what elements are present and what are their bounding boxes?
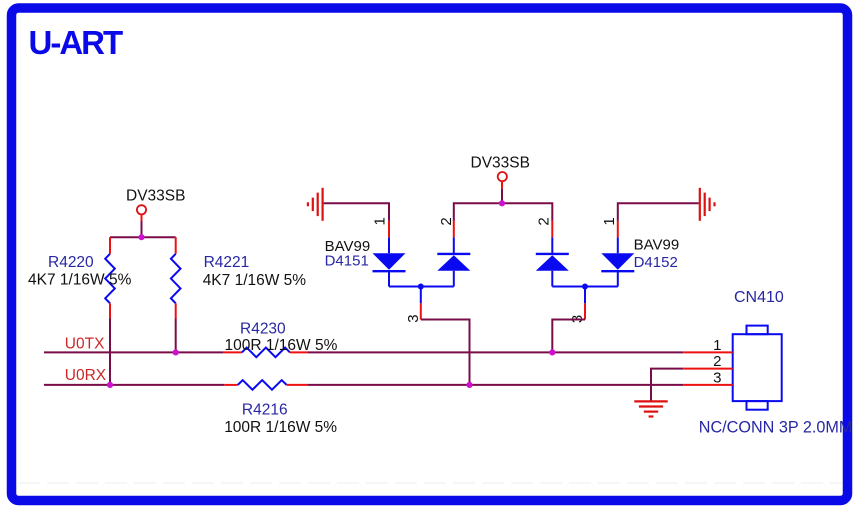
connector CN410 <box>683 289 852 436</box>
svg-text:4K7 1/16W 5%: 4K7 1/16W 5% <box>203 272 307 289</box>
svg-text:BAV99: BAV99 <box>634 236 680 253</box>
wire middle rail pin2-pin2 <box>454 203 553 221</box>
power pin stub (red) DV33SB middle <box>501 181 503 189</box>
diode element A (cathode up) <box>536 253 569 255</box>
svg-text:1: 1 <box>372 217 389 225</box>
svg-text:100R 1/16W 5%: 100R 1/16W 5% <box>225 337 338 354</box>
wire from DV33SB left to rail <box>141 221 143 237</box>
common anode wire <box>389 286 454 288</box>
svg-text:1: 1 <box>601 217 618 225</box>
junction dot R4221/U0TX <box>173 349 179 355</box>
svg-text:D4151: D4151 <box>325 253 369 270</box>
junction dot D4152/U0TX <box>549 349 555 355</box>
pin 1 lead <box>617 221 619 237</box>
svg-text:R4221: R4221 <box>204 254 250 271</box>
wire U0RX middle segment <box>308 384 683 386</box>
svg-text:100R 1/16W 5%: 100R 1/16W 5% <box>224 419 337 436</box>
resistor R4221 <box>171 237 306 318</box>
junction dot R4220/U0RX <box>107 382 113 388</box>
svg-text:CN410: CN410 <box>734 289 784 306</box>
ground symbol (top left, earth) <box>308 188 323 221</box>
diode D4151 (BAV99) <box>325 217 471 323</box>
pin 3 lead <box>584 287 586 304</box>
common anode wire <box>552 286 618 288</box>
svg-text:2: 2 <box>713 353 721 370</box>
svg-text:D4152: D4152 <box>634 254 678 271</box>
pin 1 lead <box>388 221 390 237</box>
wire R4221 bottom to U0TX <box>175 319 177 353</box>
diode D4152 (BAV99) <box>536 217 680 323</box>
svg-text:U-ART: U-ART <box>29 24 123 61</box>
wire D4152 pin1 to right ground <box>618 203 699 221</box>
svg-text:4K7 1/16W 5%: 4K7 1/16W 5% <box>28 271 132 288</box>
wire D4151 pin3 to U0RX <box>421 320 470 385</box>
diode element B (cathode down) <box>601 253 634 270</box>
resistor R4230 <box>224 321 338 358</box>
svg-text:NC/CONN 3P 2.0MM: NC/CONN 3P 2.0MM <box>699 418 853 436</box>
svg-text:3: 3 <box>405 314 422 322</box>
wire top rail R4220/R4221 <box>110 236 176 238</box>
ground symbol (bottom, signal gnd) <box>634 401 667 416</box>
junction dot D4151/U0RX <box>466 382 472 388</box>
svg-text:DV33SB: DV33SB <box>126 188 185 205</box>
svg-text:U0TX: U0TX <box>65 335 105 352</box>
pin 3 lead <box>420 287 422 304</box>
svg-text:2: 2 <box>438 217 455 225</box>
pin 2 lead <box>453 221 455 237</box>
diode element A (cathode down) <box>373 253 406 270</box>
wire D4152 pin3 to U0TX <box>552 320 585 353</box>
wire U0RX left segment <box>44 384 224 386</box>
svg-text:3: 3 <box>713 370 721 387</box>
wire left ground to D4151 pin1 <box>324 203 389 221</box>
svg-text:R4216: R4216 <box>242 402 288 419</box>
power pin stub (red) DV33SB left <box>141 214 143 221</box>
junction dot at DV33SB rail <box>138 234 144 240</box>
resistor R4220 <box>28 237 132 318</box>
resistor R4216 <box>224 380 337 436</box>
pin 2 <box>683 368 733 370</box>
svg-text:1: 1 <box>713 337 721 354</box>
svg-text:R4230: R4230 <box>240 321 286 338</box>
svg-text:R4220: R4220 <box>48 254 94 271</box>
diode element B (cathode up) <box>437 253 470 255</box>
svg-text:2: 2 <box>536 217 553 225</box>
power symbol DV33SB (middle) <box>471 155 530 182</box>
svg-text:U0RX: U0RX <box>65 367 107 384</box>
wire DV33SB middle stub <box>501 189 503 203</box>
pin 1 <box>683 351 733 353</box>
wire connector pin2 to ground <box>651 369 683 401</box>
junction dot DV33SB rail <box>499 200 505 206</box>
ground symbol (top right, earth) <box>700 188 715 221</box>
faint page artifact line <box>18 482 842 484</box>
svg-text:DV33SB: DV33SB <box>471 155 530 172</box>
pin 3 <box>683 384 733 386</box>
wire U0TX middle segment <box>307 351 683 353</box>
wire U0TX left segment <box>44 351 224 353</box>
wire R4220 bottom to U0RX <box>109 319 111 385</box>
pin 2 lead <box>551 221 553 237</box>
power symbol DV33SB (left) <box>126 188 185 215</box>
